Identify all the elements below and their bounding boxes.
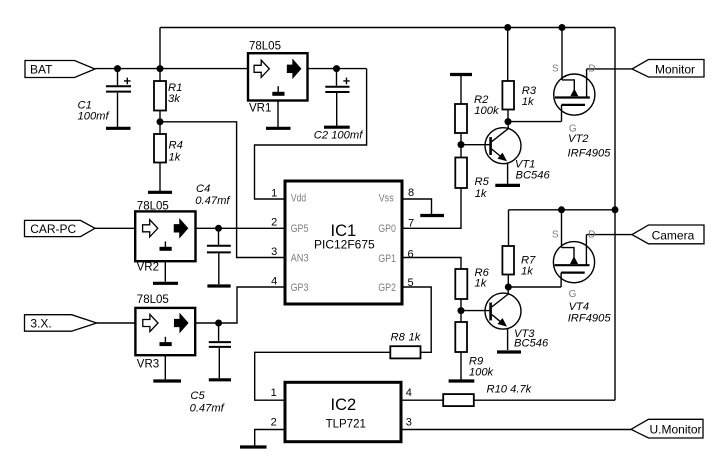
node BAT input flag bbox=[25, 61, 95, 78]
capacitor C2 bbox=[325, 69, 349, 126]
ground C5 bbox=[209, 378, 231, 381]
svg-text:GP1: GP1 bbox=[378, 253, 396, 265]
svg-text:BAT: BAT bbox=[30, 62, 53, 76]
wire IC1 pin 5 GP2 to R8 right bbox=[402, 287, 431, 352]
designator label VT2 IRF4905 bbox=[568, 133, 612, 159]
voltage regulator VR1 78L05 bbox=[248, 53, 308, 100]
wire VR3 common pin bbox=[164, 355, 166, 379]
svg-text:1k: 1k bbox=[169, 152, 182, 164]
wire riser from BAT node to top rail bbox=[159, 28, 161, 69]
svg-text:3: 3 bbox=[271, 246, 277, 258]
wire base node to R5 top bbox=[460, 145, 462, 158]
svg-text:78L05: 78L05 bbox=[137, 294, 169, 306]
junction rail VT2 source bbox=[559, 24, 566, 31]
svg-text:100k: 100k bbox=[474, 105, 500, 117]
wire R2 bottom to base node bbox=[460, 133, 462, 145]
svg-text:S: S bbox=[552, 64, 559, 75]
wire IC1 pin 8 Vss to ground bbox=[402, 199, 432, 214]
wire base node to R9 top bbox=[460, 311, 462, 322]
junction camera rail VT4 source bbox=[558, 206, 565, 213]
MOSFET VT4 IRF4905 bbox=[553, 235, 594, 287]
svg-text:R2: R2 bbox=[474, 94, 489, 106]
junction R1 R4 divider bbox=[157, 118, 164, 125]
node U.Monitor output flag bbox=[631, 419, 703, 438]
svg-text:IRF4905: IRF4905 bbox=[568, 313, 612, 325]
svg-text:Monitor: Monitor bbox=[655, 62, 695, 76]
svg-text:1: 1 bbox=[271, 188, 277, 200]
ground C4 bbox=[207, 284, 230, 287]
junction VR2 output C4 bbox=[215, 225, 222, 232]
svg-text:5: 5 bbox=[408, 277, 414, 289]
svg-text:1k: 1k bbox=[475, 188, 488, 200]
wire 3.X. to VR3 bbox=[97, 322, 136, 324]
svg-text:GP5: GP5 bbox=[291, 223, 309, 235]
wire right supply rail down to R10 bbox=[614, 28, 616, 401]
svg-text:2: 2 bbox=[271, 217, 277, 229]
wire VR1 common pin bbox=[277, 101, 279, 128]
svg-text:0.47mf: 0.47mf bbox=[190, 403, 226, 415]
svg-text:C2 100mf: C2 100mf bbox=[314, 129, 364, 141]
junction BAT C1 bbox=[114, 65, 121, 72]
svg-text:AN3: AN3 bbox=[291, 252, 309, 264]
node Monitor output flag bbox=[632, 60, 704, 78]
ground R4 bbox=[148, 191, 172, 194]
svg-text:1k: 1k bbox=[475, 278, 488, 290]
svg-text:R10 4.7k: R10 4.7k bbox=[487, 384, 533, 396]
wire collector node to VT2 gate bbox=[508, 121, 561, 123]
wire R10 to right rail bbox=[474, 399, 615, 401]
junction VR1 output C2 bbox=[333, 65, 340, 72]
designator label VT3 BC546 bbox=[514, 328, 549, 349]
svg-text:D: D bbox=[588, 229, 595, 240]
resistor R10 bbox=[443, 394, 474, 406]
node CAR-PC input flag bbox=[25, 220, 96, 236]
svg-text:VR2: VR2 bbox=[137, 262, 159, 274]
junction R6 R9 VT3 base bbox=[458, 307, 465, 314]
wire IC2 pin 2 to ground bbox=[255, 430, 285, 446]
ground VR1 bbox=[266, 127, 291, 130]
wire camera branch rail bbox=[509, 209, 616, 211]
svg-text:7: 7 bbox=[408, 218, 414, 230]
resistor R2 bbox=[455, 104, 467, 133]
svg-text:VT4: VT4 bbox=[569, 301, 590, 313]
wire R2 top stub bbox=[460, 76, 462, 105]
wire camera rail down to R7 bbox=[508, 210, 510, 246]
wire R3 bottom to collector node bbox=[507, 110, 509, 122]
node 3.X. input flag bbox=[25, 315, 97, 332]
svg-text:Vss: Vss bbox=[379, 193, 395, 205]
resistor R7 bbox=[502, 246, 514, 275]
svg-text:C4: C4 bbox=[196, 183, 210, 195]
wire IC1 pin 6 GP1 to R6 top bbox=[402, 258, 461, 270]
svg-text:R5: R5 bbox=[475, 176, 490, 188]
junction R3 VT1 collector gate bbox=[505, 118, 512, 125]
wire divider node to IC1 pin 3 AN3 bbox=[160, 122, 285, 258]
wire CAR-PC to VR2 bbox=[95, 227, 135, 229]
svg-text:Vdd: Vdd bbox=[291, 193, 306, 205]
svg-text:Camera: Camera bbox=[652, 228, 695, 242]
svg-text:100mf: 100mf bbox=[78, 110, 111, 122]
svg-text:C5: C5 bbox=[190, 390, 205, 402]
svg-text:VR3: VR3 bbox=[137, 359, 159, 371]
ground C2 bbox=[324, 126, 350, 129]
svg-text:4: 4 bbox=[406, 387, 412, 399]
wire IC2 pin 4 to R10 bbox=[401, 399, 443, 401]
resistor R5 bbox=[455, 158, 467, 189]
junction VR3 output C5 bbox=[215, 320, 222, 327]
value label R2 100k bbox=[474, 94, 500, 117]
wire VR2 output to IC1 pin 2 GP5 bbox=[196, 227, 286, 229]
svg-text:4: 4 bbox=[271, 276, 277, 288]
resistor R1 bbox=[154, 81, 166, 111]
svg-text:TLP721: TLP721 bbox=[326, 418, 366, 430]
wire R3 top from rail bbox=[507, 28, 509, 82]
svg-text:2: 2 bbox=[271, 417, 277, 429]
svg-text:VT2: VT2 bbox=[568, 133, 589, 145]
wire collector node to VT4 gate bbox=[508, 286, 561, 288]
wire top supply rail bbox=[160, 27, 615, 29]
ground C1 bbox=[106, 127, 131, 130]
value label R6 1k bbox=[475, 267, 490, 290]
junction rail R3 bbox=[504, 24, 511, 31]
resistor R6 bbox=[455, 269, 467, 299]
transistor VT3 BC546 bbox=[461, 287, 521, 350]
svg-text:D: D bbox=[588, 64, 595, 75]
wire IC2 pin 3 to U.Monitor bbox=[401, 429, 631, 431]
MOSFET VT2 IRF4905 bbox=[554, 69, 595, 122]
svg-text:R4: R4 bbox=[169, 139, 183, 151]
ground IC2 pin 2 bbox=[240, 445, 267, 448]
svg-text:R8: R8 bbox=[391, 331, 406, 343]
svg-text:3k: 3k bbox=[168, 93, 181, 105]
wire BAT input to VR1 bbox=[95, 68, 248, 70]
wire R4 top lead bbox=[159, 122, 161, 134]
svg-text:78L05: 78L05 bbox=[137, 200, 169, 212]
value label R3 1k bbox=[522, 85, 537, 108]
value label C4 0.47mf bbox=[195, 183, 231, 207]
wire R6 bottom to base node bbox=[460, 299, 462, 311]
value label R1 3k bbox=[168, 82, 182, 105]
wire VT2 drain to Monitor flag bbox=[587, 68, 632, 70]
resistor R9 bbox=[455, 322, 467, 352]
value label R7 1k bbox=[521, 254, 536, 277]
ground VR3 bbox=[153, 379, 181, 382]
junction camera rail right rail bbox=[612, 206, 619, 213]
supply stub bar R2 bbox=[450, 73, 472, 76]
svg-text:GP3: GP3 bbox=[291, 282, 309, 294]
svg-text:IRF4905: IRF4905 bbox=[568, 147, 612, 159]
value label R9 100k bbox=[469, 355, 495, 378]
ground R9 bbox=[449, 379, 475, 382]
svg-text:6: 6 bbox=[408, 249, 414, 261]
svg-text:1k: 1k bbox=[521, 265, 534, 277]
capacitor C5 bbox=[209, 323, 231, 378]
svg-text:G: G bbox=[569, 289, 577, 300]
wire Vdd feed from C2 node to IC1 pin 1 bbox=[255, 69, 367, 199]
svg-text:GP0: GP0 bbox=[378, 223, 396, 235]
svg-text:1k: 1k bbox=[522, 96, 535, 108]
resistor R8 bbox=[390, 346, 420, 358]
wire VR1 output to C2 corner bbox=[308, 68, 367, 70]
ground VT3 emitter bbox=[497, 350, 521, 353]
capacitor C4 bbox=[207, 228, 231, 284]
svg-text:GP2: GP2 bbox=[378, 282, 396, 294]
value label R5 1k bbox=[475, 176, 490, 200]
svg-text:CAR-PC: CAR-PC bbox=[30, 222, 76, 236]
node Camera output flag bbox=[632, 225, 704, 244]
ground VR2 bbox=[153, 282, 178, 285]
svg-text:0.47mf: 0.47mf bbox=[195, 195, 231, 207]
IC U1 PIC12F675 body bbox=[285, 181, 402, 304]
wire R4 bottom to ground bbox=[159, 163, 161, 192]
junction R7 VT3 collector gate bbox=[505, 284, 512, 291]
wire IC1 pin 7 GP0 to R5 bottom bbox=[402, 188, 461, 228]
value label R4 1k bbox=[169, 139, 183, 163]
svg-text:U.Monitor: U.Monitor bbox=[650, 423, 702, 437]
ground IC1 Vss pin 8 bbox=[420, 214, 444, 217]
designator label VT1 BC546 bbox=[515, 159, 551, 182]
wire R8 left to IC2 pin 1 bbox=[255, 352, 391, 400]
value label C5 0.47mf bbox=[190, 390, 226, 414]
svg-text:BC546: BC546 bbox=[514, 337, 549, 349]
svg-text:S: S bbox=[552, 229, 559, 240]
svg-text:PIC12F675: PIC12F675 bbox=[314, 238, 375, 252]
svg-text:3: 3 bbox=[406, 417, 412, 429]
wire R7 bottom to collector node bbox=[507, 275, 509, 288]
svg-text:1: 1 bbox=[271, 387, 277, 399]
wire VT2 source from rail bbox=[561, 28, 563, 81]
wire R1 leads bbox=[159, 69, 161, 122]
resistor R4 bbox=[154, 134, 166, 163]
svg-text:VR1: VR1 bbox=[249, 102, 271, 114]
svg-text:8: 8 bbox=[408, 187, 414, 199]
wire VR3 output corner to IC1 pin 4 GP3 bbox=[195, 287, 285, 323]
voltage regulator VR2 78L05 bbox=[135, 211, 195, 261]
junction BAT rail riser bbox=[157, 65, 164, 72]
ground VT1 emitter bbox=[495, 184, 520, 187]
voltage regulator VR3 78L05 bbox=[135, 308, 195, 355]
wire VT4 source drop bbox=[561, 210, 563, 248]
wire VR2 common pin bbox=[164, 261, 166, 282]
wire VT4 drain to Camera flag bbox=[586, 234, 632, 236]
transistor VT1 BC546 bbox=[461, 122, 521, 185]
svg-text:1k: 1k bbox=[409, 331, 422, 343]
wire R9 bottom to ground bbox=[460, 352, 462, 380]
svg-text:3.X.: 3.X. bbox=[30, 317, 51, 331]
capacitor C1 bbox=[106, 69, 131, 127]
svg-text:78L05: 78L05 bbox=[249, 41, 281, 53]
svg-text:100k: 100k bbox=[469, 366, 495, 378]
svg-text:IC2: IC2 bbox=[331, 396, 357, 414]
resistor R3 bbox=[502, 81, 514, 110]
junction R2 R5 VT1 base bbox=[458, 141, 465, 148]
designator label VT4 IRF4905 bbox=[568, 301, 612, 325]
svg-text:BC546: BC546 bbox=[516, 170, 551, 182]
IC U2 TLP721 body bbox=[285, 382, 401, 441]
